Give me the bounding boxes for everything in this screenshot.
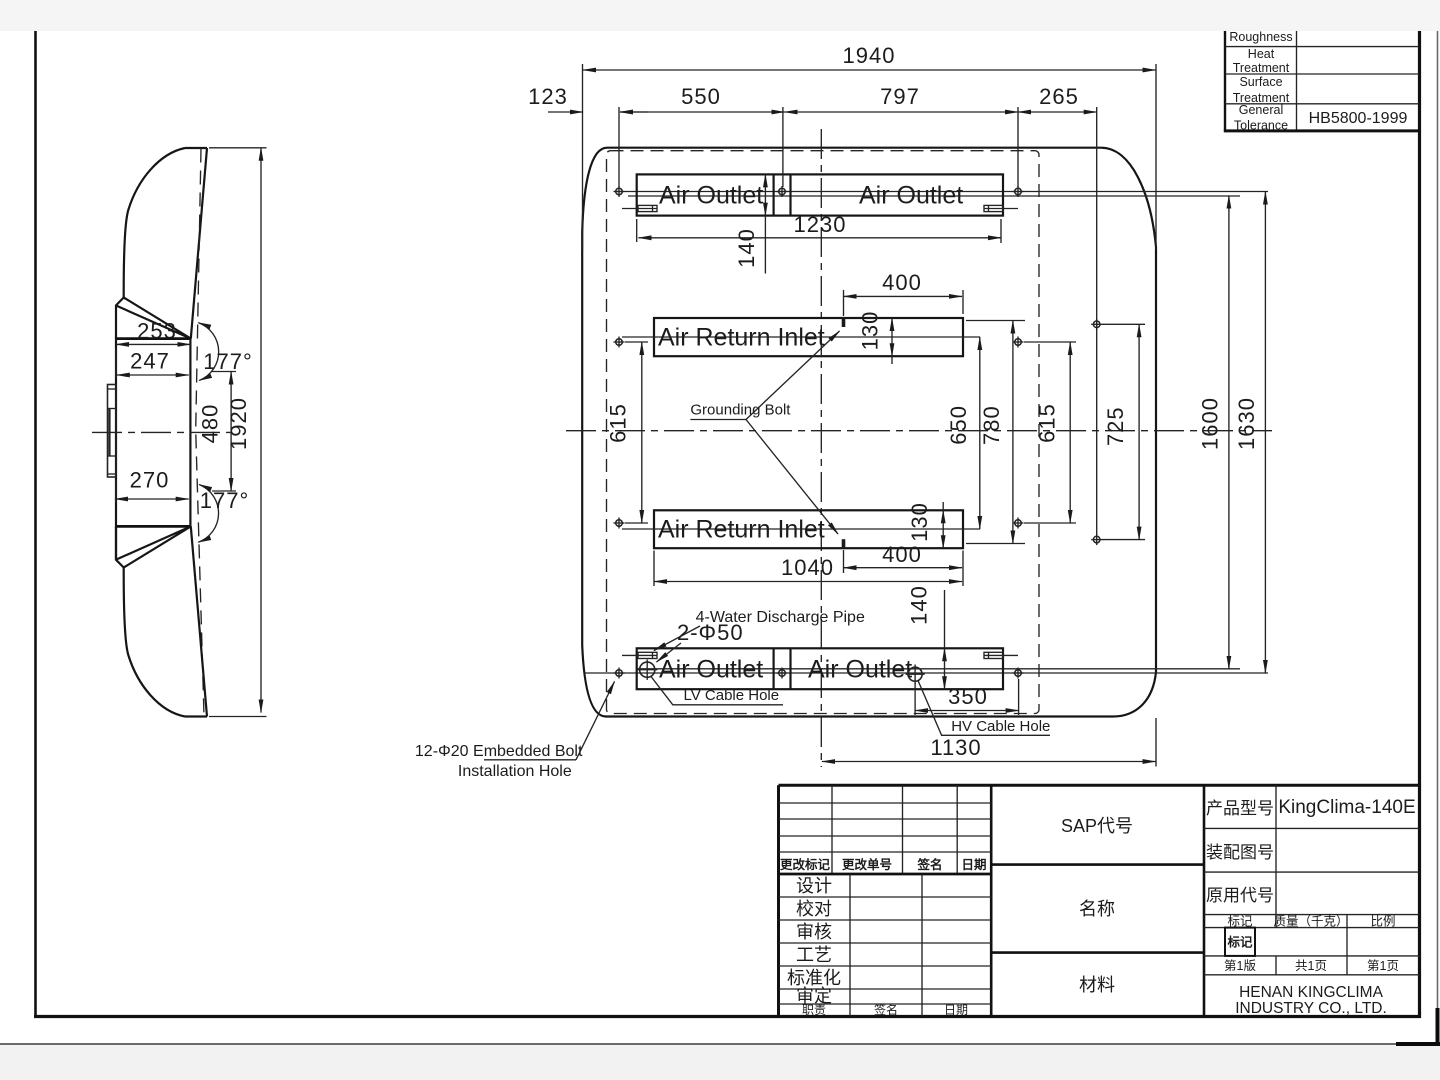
extension line col 619 <box>618 107 620 187</box>
side view upper wedge <box>115 298 191 339</box>
bolt row line bottom <box>585 672 1268 674</box>
dim 1600 <box>1228 196 1230 669</box>
svg-text:名称: 名称 <box>1079 899 1115 919</box>
extension line left edge for 1940 <box>582 64 584 250</box>
middle column dividers <box>991 863 1204 866</box>
outlet centre line bottom <box>637 668 1240 670</box>
svg-text:装配图号: 装配图号 <box>1206 843 1274 862</box>
svg-text:职责: 职责 <box>802 1003 826 1017</box>
svg-text:725: 725 <box>1103 406 1128 446</box>
dim 650 <box>979 337 981 529</box>
svg-text:615: 615 <box>606 403 631 443</box>
svg-text:第1页: 第1页 <box>1367 959 1399 973</box>
dim 1040 <box>654 581 962 583</box>
paper bottom edge <box>0 1043 1440 1045</box>
top air outlet rectangle <box>637 174 1003 215</box>
svg-text:INDUSTRY CO., LTD.: INDUSTRY CO., LTD. <box>1235 1000 1387 1017</box>
extension line col 1096.7 <box>1096 107 1098 535</box>
dim 1630 <box>1264 192 1266 674</box>
grounding bolt leader bottom <box>746 420 838 535</box>
dim 400 bottom <box>844 567 963 569</box>
svg-text:Grounding Bolt: Grounding Bolt <box>690 402 791 419</box>
grounding bolt tick bottom <box>842 539 846 548</box>
bolt hole 9 <box>1091 534 1102 545</box>
drawing frame left <box>34 31 37 1017</box>
dim 123 <box>548 111 583 113</box>
paper right edge <box>1437 31 1439 1044</box>
dim 1940 <box>583 69 1156 71</box>
svg-text:KingClima-140E: KingClima-140E <box>1278 797 1415 818</box>
angle dim 177 lower arc <box>198 485 218 543</box>
svg-text:270: 270 <box>130 468 170 493</box>
change record header labels <box>780 857 987 872</box>
svg-text:签名: 签名 <box>916 857 942 872</box>
svg-text:400: 400 <box>882 270 922 295</box>
svg-text:247: 247 <box>130 349 170 374</box>
svg-text:HENAN KINGCLIMA: HENAN KINGCLIMA <box>1239 984 1383 1001</box>
svg-text:原用代号: 原用代号 <box>1206 886 1274 905</box>
extension line col 783 <box>782 107 784 187</box>
svg-text:第1版: 第1版 <box>1224 959 1256 973</box>
roughness/tolerance table top right <box>1224 18 1420 131</box>
bottom air return inlet rectangle <box>654 510 963 548</box>
change record header divider <box>779 873 992 876</box>
bolt hole 2 <box>777 186 788 197</box>
grounding bolt leader top <box>746 331 840 420</box>
side view lower wedge <box>116 526 191 567</box>
bolt hole 11 <box>777 668 788 679</box>
svg-text:LV Cable Hole: LV Cable Hole <box>684 687 780 704</box>
signoff footer labels <box>802 1002 968 1017</box>
dim 797 <box>785 111 1019 113</box>
svg-text:797: 797 <box>880 84 920 109</box>
top view vertical centerline <box>820 129 822 767</box>
dim 130 top <box>891 318 893 356</box>
svg-text:共1页: 共1页 <box>1295 959 1327 973</box>
dim 350 <box>915 710 1019 712</box>
top grey band overlay <box>0 0 1440 31</box>
dim 270 <box>115 498 189 500</box>
side view top flat edge <box>185 147 207 149</box>
dim 780 <box>1012 321 1014 544</box>
svg-text:General: General <box>1239 103 1283 117</box>
svg-text:标准化: 标准化 <box>787 968 841 988</box>
bolt row line top <box>617 191 1268 193</box>
dim 725 <box>1138 324 1140 539</box>
svg-text:Air Outlet: Air Outlet <box>808 656 912 684</box>
HV leader <box>918 681 1050 736</box>
svg-text:Roughness: Roughness <box>1229 30 1292 44</box>
svg-text:177°: 177° <box>200 488 250 513</box>
svg-text:12-Φ20 Embedded Bolt: 12-Φ20 Embedded Bolt <box>415 743 583 760</box>
svg-text:质量（千克）: 质量（千克） <box>1273 915 1348 929</box>
bolt hole 10 <box>614 668 625 679</box>
svg-text:1920: 1920 <box>226 397 251 450</box>
svg-text:标记: 标记 <box>1226 935 1253 950</box>
svg-text:Air Outlet: Air Outlet <box>859 182 963 210</box>
dim 400 top <box>844 295 963 297</box>
dim 1230 <box>639 237 1002 239</box>
outlet centre line top <box>628 195 1240 197</box>
dim 615 right <box>1069 342 1071 523</box>
side view bottom flat edge <box>185 715 207 717</box>
angle dim 177 upper arc <box>198 323 218 381</box>
water pipe leader <box>654 626 700 651</box>
svg-text:400: 400 <box>882 542 922 567</box>
dim 615 left <box>641 342 643 523</box>
svg-text:日期: 日期 <box>961 857 986 872</box>
side view left bracket <box>108 385 117 478</box>
svg-text:780: 780 <box>979 405 1004 445</box>
mark cell box <box>1225 928 1255 956</box>
svg-text:Air Return Inlet: Air Return Inlet <box>658 324 825 352</box>
2-phi50 leader <box>657 643 682 662</box>
dim 140 bottom <box>944 648 946 689</box>
dim 480 vertical <box>230 372 232 492</box>
svg-text:材料: 材料 <box>1079 975 1115 995</box>
side view upper-left roof curve <box>124 148 185 298</box>
side view horizontal centerline <box>92 431 232 433</box>
bottom grey band <box>0 1045 1440 1080</box>
svg-text:1230: 1230 <box>794 212 847 237</box>
svg-text:1630: 1630 <box>1234 397 1259 450</box>
svg-text:1130: 1130 <box>930 735 981 760</box>
top view inner dashed opening <box>607 151 1040 714</box>
LV leader <box>651 677 783 705</box>
svg-text:480: 480 <box>198 404 223 444</box>
side view lower-left curve <box>124 568 185 717</box>
svg-text:140: 140 <box>734 228 759 268</box>
svg-text:615: 615 <box>1035 403 1060 443</box>
svg-text:产品型号: 产品型号 <box>1206 799 1274 818</box>
side view mid body right edge <box>189 339 191 527</box>
roughness table labels <box>1229 30 1292 133</box>
extension line right edge for 1940 <box>1155 64 1157 250</box>
dim 1130 <box>822 761 1156 763</box>
svg-text:SAP代号: SAP代号 <box>1061 816 1133 836</box>
dim 253 <box>116 343 190 345</box>
svg-text:更改标记: 更改标记 <box>780 857 831 872</box>
svg-text:123: 123 <box>528 84 568 109</box>
bolt hole 8 <box>1013 518 1024 529</box>
svg-text:Tolerance: Tolerance <box>1234 119 1288 133</box>
embedded bolt leader <box>576 682 615 760</box>
bolt hole 7 <box>614 518 625 529</box>
bolt hole 4 <box>614 337 625 348</box>
side view hidden roof edge dashed <box>196 149 204 717</box>
dim 265 <box>1018 111 1097 113</box>
top view outer outline <box>582 148 1156 717</box>
water pipe symbol top-left <box>622 205 657 211</box>
water pipe symbol bottom-left <box>622 652 657 658</box>
svg-text:审核: 审核 <box>796 922 832 942</box>
svg-text:HV Cable Hole: HV Cable Hole <box>951 718 1050 735</box>
bolt hole 12 <box>1013 668 1024 679</box>
dim 1920 vertical <box>260 148 262 713</box>
svg-text:Surface: Surface <box>1239 75 1282 89</box>
drawing frame bottom <box>34 1015 1421 1018</box>
dim 550 <box>620 111 785 113</box>
svg-text:253: 253 <box>137 319 177 344</box>
extension line col 1018 <box>1017 107 1019 187</box>
title block major dividers <box>990 785 993 1016</box>
svg-text:Air Return Inlet: Air Return Inlet <box>658 516 825 544</box>
svg-text:标记: 标记 <box>1227 915 1253 929</box>
bottom outlet divider <box>772 648 774 689</box>
dim 247 <box>117 374 189 376</box>
bolt hole 1 <box>614 186 625 197</box>
side view mid body left edge <box>115 339 117 560</box>
svg-text:1600: 1600 <box>1198 397 1223 450</box>
svg-text:日期: 日期 <box>944 1003 968 1017</box>
svg-text:177°: 177° <box>203 349 253 374</box>
bolt hole 5 <box>1013 337 1024 348</box>
mark weight scale header <box>1227 915 1395 929</box>
top air return inlet rectangle <box>654 318 963 356</box>
water pipe symbol bottom-right <box>984 652 1018 658</box>
signoff labels <box>787 876 841 1006</box>
svg-text:1040: 1040 <box>781 555 834 580</box>
edition page row <box>1224 959 1399 973</box>
right section rows <box>1204 785 1420 975</box>
svg-text:Heat: Heat <box>1248 47 1275 61</box>
side view roof right slanted edge <box>191 148 207 339</box>
svg-text:140: 140 <box>907 585 932 625</box>
svg-text:2-Φ50: 2-Φ50 <box>677 620 744 645</box>
water pipe symbol top-right <box>984 205 1018 211</box>
inlet centre line bottom <box>622 528 980 530</box>
svg-text:设计: 设计 <box>796 876 832 896</box>
inlet centre line top <box>622 336 980 338</box>
bottom air outlet rectangle <box>637 648 1003 689</box>
svg-text:265: 265 <box>1039 84 1079 109</box>
top view horizontal centerline <box>566 430 1272 432</box>
svg-text:350: 350 <box>948 684 988 709</box>
svg-text:工艺: 工艺 <box>796 945 832 965</box>
svg-text:130: 130 <box>858 311 883 351</box>
dim 130 bottom <box>942 510 944 548</box>
top outlet divider <box>772 174 774 215</box>
signoff rows <box>779 874 992 1017</box>
svg-text:1940: 1940 <box>843 43 896 68</box>
svg-text:Air Outlet: Air Outlet <box>659 182 763 210</box>
change record rows <box>779 785 992 874</box>
drawing frame right <box>1418 31 1421 1018</box>
svg-text:Treatment: Treatment <box>1233 61 1290 75</box>
bolt hole 3 <box>1013 186 1024 197</box>
LV cable hole circle <box>637 660 657 680</box>
svg-text:650: 650 <box>946 405 971 445</box>
title block outer border <box>779 785 1420 1016</box>
svg-text:更改单号: 更改单号 <box>842 857 892 872</box>
HV cable hole circle <box>906 665 925 684</box>
dim 140 top <box>764 174 766 215</box>
svg-text:Air Outlet: Air Outlet <box>659 656 763 684</box>
svg-text:550: 550 <box>681 84 721 109</box>
svg-text:校对: 校对 <box>796 899 832 919</box>
bolt hole 6 <box>1091 319 1102 330</box>
svg-text:比例: 比例 <box>1370 915 1395 929</box>
side view lower roof right slanted edge <box>191 526 207 716</box>
svg-text:签名: 签名 <box>874 1002 898 1017</box>
side view lower ledge line <box>115 525 191 528</box>
grounding bolt tick top <box>842 318 846 327</box>
svg-text:HB5800-1999: HB5800-1999 <box>1309 110 1408 127</box>
svg-text:Installation Hole: Installation Hole <box>458 763 572 780</box>
svg-text:130: 130 <box>907 502 932 542</box>
